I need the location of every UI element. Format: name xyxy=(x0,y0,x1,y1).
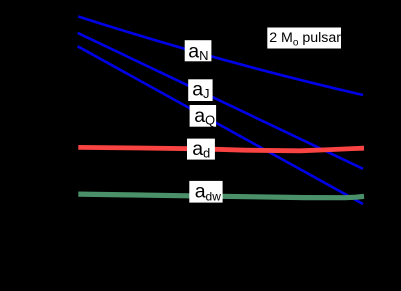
svg-text:2 Mo pulsar: 2 Mo pulsar xyxy=(269,30,341,49)
